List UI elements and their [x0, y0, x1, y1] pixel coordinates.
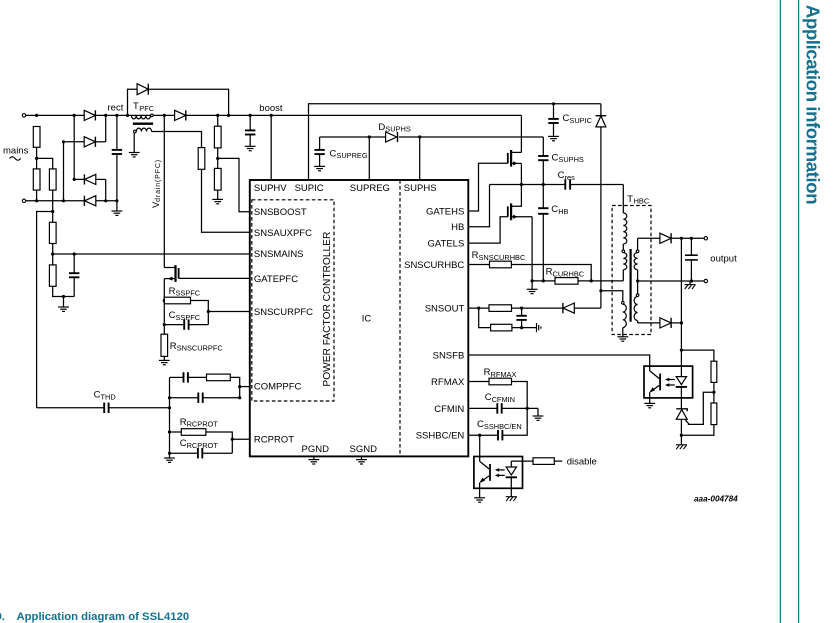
svg-text:POWER FACTOR CONTROLLER: POWER FACTOR CONTROLLER: [322, 232, 333, 387]
zener/TL431 shunt regulator: [676, 409, 689, 445]
wire: secondary top to diode: [638, 237, 660, 239]
node: Vdrain junction: [163, 114, 166, 117]
svg-text:COMPPFC: COMPPFC: [254, 381, 302, 392]
wire: SSHBC/EN to opto collector: [479, 435, 481, 461]
resistor Ra (upper mains divider): [33, 127, 40, 148]
svg-text:SUPIC: SUPIC: [569, 116, 592, 125]
label: CSSHBC/EN: [477, 419, 522, 431]
label: CSUPHS: [552, 152, 584, 164]
label: CRCPROT: [180, 438, 219, 450]
capacitor output: [685, 238, 698, 282]
diode DSUPHS: [386, 132, 398, 142]
label: RCURHBC: [546, 267, 585, 279]
diode output rectifier bottom: [660, 318, 682, 328]
transistor Q3 low-side MOSFET: [468, 185, 532, 281]
pin label RCPROT: [254, 435, 294, 446]
pin label SNSFB: [433, 350, 465, 361]
label: CTHD: [94, 390, 116, 402]
svg-text:THD: THD: [101, 392, 116, 401]
wire: THD branch jog: [37, 212, 53, 408]
pin label SUPHS: [404, 183, 437, 194]
label: CSUPIC: [563, 113, 593, 125]
pin label SUPIC: [295, 183, 324, 194]
wire: TL431 ref connection: [688, 392, 714, 424]
wire: COMPPFC/RCPROT left column: [169, 377, 171, 458]
label: figure caption: [0, 611, 189, 623]
svg-text:RCPROT: RCPROT: [187, 441, 219, 450]
diode PFC boost diode: [175, 110, 186, 120]
node: THBC primary polarity dot: [622, 250, 625, 253]
svg-text:SGND: SGND: [350, 444, 378, 455]
label: THBC: [627, 194, 650, 206]
ground: THBC aux: [617, 337, 628, 341]
optocoupler U3 disable box: [474, 457, 523, 489]
wire: SUPIC riser and top rail: [309, 104, 601, 180]
wire: Rc through bottom line to divider node: [52, 190, 54, 222]
svg-text:CFMIN: CFMIN: [492, 395, 515, 404]
svg-text:SNSCURHBC: SNSCURHBC: [404, 260, 464, 271]
capacitor mains filter: [69, 254, 79, 297]
svg-text:GATEPFC: GATEPFC: [254, 274, 298, 285]
svg-text:HB: HB: [558, 207, 568, 216]
label: RRCPROT: [180, 417, 219, 429]
wire: SNSBOOST tap to IC: [218, 158, 250, 211]
wire: secondary bottom to diode: [638, 322, 660, 324]
capacitor CCFMIN: [468, 403, 538, 413]
pin label SNSAUXPFC: [254, 228, 312, 239]
symbol: opto light arrows feedback: [665, 378, 675, 387]
ground: output chassis: [685, 281, 696, 289]
label: aaa-004784: [694, 495, 738, 504]
label: rect: [108, 103, 124, 114]
ground: half-bridge return: [527, 281, 538, 294]
svg-text:SNSCURPFC: SNSCURPFC: [177, 344, 224, 353]
pin label HB: [451, 222, 464, 233]
svg-text:CURHBC: CURHBC: [553, 269, 585, 278]
resistor aux divider upper (TPFC aux): [198, 148, 205, 170]
svg-text:SUPHV: SUPHV: [254, 183, 287, 194]
svg-text:SUPHS: SUPHS: [385, 125, 411, 134]
IC dashed PFC section box: [252, 200, 334, 401]
svg-text:SSPFC: SSPFC: [176, 289, 201, 298]
label: RSNSCURPFC: [170, 341, 224, 353]
svg-text:9.: 9.: [0, 611, 5, 623]
resistor COMPPFC branch1: [207, 374, 240, 398]
node: THBC secondary polarity dot lower: [636, 294, 639, 297]
label: output: [710, 254, 737, 265]
wire: SNSFB line: [468, 355, 649, 371]
ground: PGND: [308, 456, 319, 464]
label: CSSPFC: [169, 310, 201, 322]
node: Ra bottom junction: [35, 157, 38, 160]
svg-text:SNSCURHBC: SNSCURHBC: [479, 253, 526, 262]
ground: TPFC secondary: [129, 153, 140, 157]
pin label SUPREG: [350, 183, 390, 194]
svg-text:SSHBC/EN: SSHBC/EN: [484, 422, 522, 431]
pin label SNSMAINS: [254, 249, 304, 260]
svg-text:boost: boost: [259, 103, 283, 114]
label: Application information sidebar: [803, 5, 824, 204]
svg-text:SSHBC/EN: SSHBC/EN: [416, 431, 465, 442]
diode D3 bridge: [74, 174, 106, 184]
node: top line junctions: [35, 114, 38, 117]
terminal: mains top: [22, 114, 25, 117]
pin label CFMIN: [434, 404, 464, 415]
svg-text:SNSOUT: SNSOUT: [425, 304, 465, 315]
pin label SUPHV: [254, 183, 287, 194]
ground: CSUPREG: [314, 166, 325, 170]
node: TPFC secondary polarity dot: [134, 130, 137, 133]
capacitor CHB: [538, 185, 548, 281]
ground: SGND: [356, 456, 367, 464]
capacitor Cres: [565, 179, 623, 189]
wire: SNSMAINS line to IC: [53, 253, 250, 255]
node: THBC secondary polarity dot upper: [636, 250, 639, 253]
node: half-bridge return junctions: [531, 279, 534, 282]
wire: Vdrain column: [163, 115, 165, 267]
capacitor CRCPROT: [168, 448, 232, 458]
resistor RSNSCURPFC: [161, 334, 168, 360]
capacitor CTHD: [37, 403, 172, 413]
capacitor COMPPFC branch1: [170, 372, 207, 382]
wire: SUPREG/SUPHS supply line: [320, 136, 386, 138]
transistor Q1 GATEPFC MOSFET: [164, 265, 250, 300]
ground: feedback chassis: [676, 445, 687, 449]
diode: disable opto LED: [506, 461, 517, 497]
svg-text:output: output: [710, 254, 737, 265]
node: THBC aux polarity dot: [622, 302, 625, 305]
wire: SUPHS riser: [419, 137, 421, 180]
label: mains: [3, 146, 29, 157]
wire: D2 anode column: [63, 142, 65, 201]
svg-text:SNSCURPFC: SNSCURPFC: [254, 307, 313, 318]
svg-text:mains: mains: [3, 146, 29, 157]
transistor Q2 high-side MOSFET: [468, 150, 521, 211]
svg-text:T: T: [627, 194, 633, 205]
resistor feedback divider lower: [711, 403, 717, 425]
pin label SNSBOOST: [254, 207, 307, 218]
optocoupler U2 feedback box: [644, 366, 693, 398]
resistor RSNSCURHBC: [468, 261, 591, 281]
wire: boost bypass diode top line: [128, 89, 138, 115]
wire: mains top phase line: [26, 114, 522, 116]
core: THBC: [629, 249, 631, 322]
transistor: feedback opto phototransistor: [649, 371, 660, 404]
svg-text:HB: HB: [451, 222, 464, 233]
capacitor CSUPIC: [548, 104, 558, 137]
svg-text:Application information: Application information: [803, 5, 824, 204]
wire: half-bridge node line: [490, 184, 566, 186]
ground: disable LED chassis: [506, 497, 517, 501]
ground: RCPROT network: [164, 458, 175, 462]
resistor disable: [511, 458, 562, 465]
wire: Rb to bottom line: [36, 190, 38, 201]
label: boost: [259, 103, 283, 114]
svg-text:drain(PFC): drain(PFC): [155, 159, 162, 202]
node: TPFC primary polarity dot: [151, 114, 154, 117]
label: CSUPREG: [330, 148, 368, 160]
svg-text:RFMAX: RFMAX: [491, 370, 517, 379]
label: disable: [567, 457, 597, 468]
svg-text:RCPROT: RCPROT: [187, 420, 219, 429]
node: SUPREG riser: [368, 135, 371, 138]
inductor THBC primary upper: [623, 185, 627, 251]
pin label GATEPFC: [254, 274, 298, 285]
resistor RCURHBC: [532, 278, 623, 285]
resistor SNSOUT upper: [468, 305, 563, 312]
wire: SUPREG riser: [368, 137, 370, 180]
pin label SSHBC/EN: [416, 431, 465, 442]
svg-text:Application diagram of SSL4120: Application diagram of SSL4120: [17, 611, 190, 623]
wire: TPFC secondary to aux divider: [152, 132, 202, 148]
label: CCFMIN: [485, 392, 515, 404]
label: POWER FACTOR CONTROLLER: [322, 232, 333, 387]
wire: mains bottom phase line: [26, 200, 117, 202]
ground: rect filter: [116, 201, 118, 211]
node: divider midpoint: [712, 382, 715, 403]
transformer THBC dashed box: [612, 206, 651, 335]
resistor feedback divider upper: [711, 361, 717, 382]
wire: Re/cap join: [53, 286, 74, 296]
svg-text:SUPHS: SUPHS: [558, 155, 584, 164]
svg-text:GATEHS: GATEHS: [426, 206, 464, 217]
label: DSUPHS: [378, 122, 410, 134]
svg-text:res: res: [565, 173, 576, 182]
wire: output diode join column: [680, 238, 682, 350]
wire: Ra to Rb/Rc node: [36, 147, 38, 169]
diode D2 bridge: [64, 137, 106, 147]
ground: boost sense divider: [212, 199, 223, 203]
svg-text:SSPFC: SSPFC: [176, 313, 201, 322]
resistor SNSOUT lower: [479, 308, 537, 331]
diode D4 bridge: [84, 196, 95, 206]
inductor TPFC primary winding: [131, 115, 150, 119]
resistor RRCPROT: [168, 429, 232, 454]
svg-text:SNSBOOST: SNSBOOST: [254, 207, 307, 218]
terminal: output plus: [704, 237, 707, 240]
wire: aux divider to SNSAUXPFC: [202, 169, 250, 232]
ground: disable opto emitter: [474, 498, 485, 502]
node: feedback divider top: [680, 349, 683, 352]
capacitor CSSPFC: [163, 301, 209, 335]
wire: TPFC secondary left to ground: [133, 133, 135, 153]
wire: aux winding tap: [599, 289, 622, 301]
label: Cres: [558, 170, 575, 182]
resistor Rb: [33, 169, 40, 190]
node: boost sense tap: [216, 157, 219, 160]
svg-text:CFMIN: CFMIN: [434, 404, 464, 415]
svg-text:SNSAUXPFC: SNSAUXPFC: [254, 228, 312, 239]
pin label GATELS: [428, 239, 465, 250]
pin label SNSCURPFC: [254, 307, 313, 318]
ground: CFMIN node: [533, 408, 544, 420]
IC internal dashed divider: [399, 180, 401, 456]
inductor TPFC secondary winding: [136, 128, 151, 131]
svg-text:PGND: PGND: [302, 444, 330, 455]
label: IC: [362, 313, 372, 324]
label: RSSPFC: [169, 286, 201, 298]
svg-text:PFC: PFC: [139, 104, 154, 113]
capacitor COMPPFC branch2: [168, 393, 241, 403]
symbol: ac tilde: [10, 157, 21, 160]
diode SNSOUT sense: [563, 303, 601, 313]
svg-text:SNSMAINS: SNSMAINS: [254, 249, 304, 260]
ground: feedback opto emitter: [644, 403, 655, 407]
diode aux supply rectifier: [596, 104, 607, 308]
wire: output return line: [638, 280, 705, 282]
node: THBC center tap: [636, 279, 639, 282]
ground: boost cap: [245, 146, 256, 150]
pin label PGND: [302, 444, 330, 455]
core: TPFC: [133, 122, 153, 124]
ground: mains divider: [63, 297, 65, 308]
node: output junctions: [680, 237, 683, 240]
capacitor CSUPREG: [314, 137, 324, 166]
resistor RSSPFC: [163, 297, 209, 324]
diode D1 bridge: [84, 110, 95, 120]
wire: boost rail to HS drain: [520, 115, 522, 152]
terminal: mains bottom: [22, 199, 25, 202]
inductor THBC secondary upper: [634, 238, 637, 281]
label: RRFMAX: [484, 367, 517, 379]
resistor boost sense upper: [214, 115, 221, 168]
resistor Rc: [49, 169, 56, 190]
svg-text:SNSFB: SNSFB: [433, 350, 465, 361]
svg-text:GATELS: GATELS: [428, 239, 465, 250]
ground: CSUPIC: [548, 136, 559, 140]
label: CHB: [551, 204, 568, 216]
node: CSUPIC tap on rail: [552, 102, 555, 105]
wire: HB pin riser: [468, 185, 489, 227]
diode: feedback opto LED: [676, 350, 687, 409]
transistor: disable opto phototransistor: [479, 461, 490, 498]
svg-text:rect: rect: [108, 103, 124, 114]
wire: COMPPFC pin: [238, 385, 250, 388]
svg-text:SUPHS: SUPHS: [404, 183, 437, 194]
node: boost / SUPHV riser: [270, 114, 273, 117]
wire: divider to upper resistor: [681, 350, 714, 361]
pin label COMPPFC: [254, 381, 302, 392]
capacitor rect filter: [112, 115, 122, 200]
diode output rectifier top: [660, 233, 705, 243]
svg-text:disable: disable: [567, 457, 597, 468]
wire: SNSCURPFC to IC: [207, 310, 250, 313]
svg-text:SUPREG: SUPREG: [336, 151, 367, 160]
resistor Re: [49, 265, 56, 286]
pin label RFMAX: [431, 377, 465, 388]
ground: SNSOUT (right-pointing): [537, 323, 541, 332]
capacitor CSSHBC/EN: [468, 408, 527, 440]
inductor THBC aux winding: [623, 304, 627, 337]
symbol: opto light arrows disable: [495, 468, 505, 477]
label: TPFC: [133, 101, 155, 113]
wire: D3/D4 anode column: [105, 179, 107, 200]
inductor THBC secondary lower: [634, 281, 637, 323]
sidebar rule inner: [779, 0, 781, 623]
capacitor CSUPHS: [538, 137, 548, 185]
inductor THBC primary lower: [623, 253, 627, 281]
svg-text:SUPIC: SUPIC: [295, 183, 324, 194]
resistor RRFMAX: [468, 378, 527, 408]
svg-text:HBC: HBC: [634, 197, 650, 206]
diode bypass (over TPFC): [137, 84, 148, 95]
svg-text:IC: IC: [362, 313, 372, 324]
capacitor boost output: [245, 114, 255, 147]
label: RSNSCURHBC: [472, 250, 526, 262]
pin label SGND: [350, 444, 378, 455]
sidebar rule outer: [798, 0, 800, 623]
label: Vdrain(PFC): [151, 159, 162, 208]
node: SUPHS riser: [418, 135, 421, 138]
wire: RCPROT pin: [231, 438, 250, 441]
wire: divider bottom return: [681, 425, 714, 436]
resistor Rd (to SNSMAINS): [49, 222, 56, 243]
svg-text:RCPROT: RCPROT: [254, 435, 294, 446]
pin label SNSOUT: [425, 304, 465, 315]
node: boost sense divider top: [216, 114, 219, 117]
wire: D3 cathode column: [73, 115, 75, 179]
svg-text:aaa-004784: aaa-004784: [694, 495, 738, 504]
svg-text:SUPREG: SUPREG: [350, 183, 390, 194]
svg-text:T: T: [133, 101, 139, 112]
wire: Rd to SNSMAINS node: [52, 244, 54, 265]
node: zener bottom junction: [680, 434, 683, 437]
capacitor SNSOUT filter: [516, 308, 526, 328]
terminal: output minus: [704, 279, 707, 282]
pin label SNSCURHBC: [404, 260, 464, 271]
wire: SUPHV riser: [270, 115, 272, 180]
op-amp IC box SSL4120: [250, 180, 468, 456]
svg-text:RFMAX: RFMAX: [431, 377, 465, 388]
resistor boost sense lower: [214, 168, 221, 199]
wire: D1/D2 cathode column: [105, 115, 107, 141]
pin label GATEHS: [426, 206, 464, 217]
ground: RSNSCURPFC: [159, 360, 170, 364]
